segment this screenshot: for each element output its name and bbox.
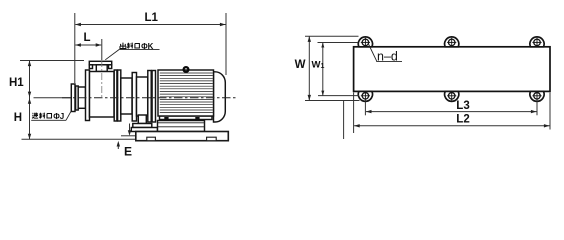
E dimension [118,124,136,150]
casing rear plate A [114,70,117,121]
svg-text:E: E [124,145,132,159]
outlet label text (hand-drawn CJK) + ΦK [120,43,139,49]
inlet flange plate [71,84,75,112]
motor fan cover cap [214,72,226,122]
mounting lug at x=451.7 top [445,37,459,47]
svg-text:L1: L1 [145,12,159,24]
anchor slot left [147,137,156,141]
svg-text:H: H [14,112,22,124]
W1 dimension [322,43,324,96]
bracket foot [133,124,152,128]
svg-text:L3: L3 [456,100,469,112]
eyebolt ring [184,67,189,72]
outlet flange tabs [89,65,92,69]
motor feet pads [164,117,168,120]
pump centerline [62,97,238,99]
outlet label 出料口ΦK leader [105,49,159,59]
casing rear plate B [118,70,121,121]
n-d label [369,45,402,62]
L dimension [75,39,102,60]
mounting lug at x=365.4 bottom [358,91,372,101]
mounting lug at x=537.0 bottom [530,91,544,101]
outlet neck [96,65,107,72]
motor flange plate A [148,71,151,123]
bracket pad [131,128,157,132]
coupling cylinder 2 [137,77,148,116]
inlet label 进料口ΦJ leader [31,111,71,120]
motor foot rail [160,116,213,120]
outlet flange plate [89,61,111,65]
L3 dimension [365,102,537,116]
svg-text:L: L [84,32,91,44]
coupling mid plate [132,73,136,122]
mounting lug at x=451.7 bottom [445,91,459,101]
W dimension [308,36,310,100]
anchor slot right [207,137,217,141]
suction pipe [78,87,85,108]
pump casing [90,72,115,118]
svg-text:L2: L2 [456,114,469,126]
svg-text:n–d: n–d [377,50,398,64]
motor support block [158,121,205,132]
base plate [136,132,229,141]
base plan rectangle [354,47,550,92]
bracket column [138,115,146,124]
svg-text:ΦJ: ΦJ [53,112,64,121]
inlet flange ring [76,86,79,110]
mounting lug at x=537.0 top [530,37,544,47]
motor body [158,70,214,116]
W/W1 reference lines [305,36,360,139]
svg-text:H1: H1 [9,77,24,89]
casing front ring [86,70,90,121]
H1 dimension [29,61,31,140]
svg-text:ΦK: ΦK [141,42,154,51]
outlet centerline [101,60,103,97]
svg-text:W: W [295,59,306,71]
motor cooling ribs [160,73,213,113]
coupling cylinder 1 [121,78,132,114]
L1 dimension [75,13,226,83]
motor flange plate B [152,71,155,123]
H reference lines [20,61,136,140]
mounting lug at x=365.4 top [358,37,372,47]
L2 dimension [354,93,550,134]
